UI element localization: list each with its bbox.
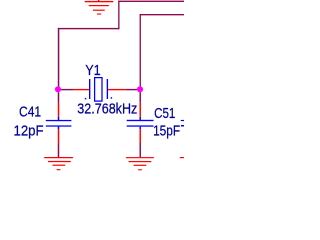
ground bar tip (off-screen symbol at right edge) bbox=[180, 157, 184, 158]
ground bar 1 bbox=[85, 1, 114, 2]
C51 top plate bbox=[127, 120, 154, 121]
Y1 pin number 1 mark bbox=[85, 98, 86, 100]
capacitor C41 bbox=[46, 92, 72, 157]
ground bar 2 bbox=[129, 161, 152, 162]
C41 bottom lead stub bbox=[58, 127, 60, 130]
ground bar 4 bbox=[138, 169, 142, 170]
C41 bottom plate bbox=[46, 125, 72, 126]
capacitor bottom plate tip (off-screen component at right edge) bbox=[181, 125, 184, 127]
wire net A (left junction up, right, up, off right edge) bbox=[58, 1, 184, 87]
svg-text:15pF: 15pF bbox=[153, 124, 180, 140]
svg-text:32.768kHz: 32.768kHz bbox=[77, 102, 137, 118]
C41 top lead stub bbox=[58, 117, 60, 120]
wire net B (from right edge down to right junction) bbox=[140, 14, 184, 87]
svg-text:12pF: 12pF bbox=[14, 123, 44, 139]
ground bar 4 bbox=[97, 14, 101, 15]
wire horizontal segment at y14 bbox=[140, 14, 184, 15]
Y1 left plate bbox=[89, 79, 90, 99]
ground GND (below C41) bbox=[44, 157, 73, 170]
wire vertical segment at x140 bbox=[140, 14, 141, 87]
ground bar 2 bbox=[48, 161, 71, 162]
wire left junction down to C41 pin 1 bbox=[58, 92, 60, 103]
capacitor C51 bbox=[127, 92, 154, 157]
svg-text:Y1: Y1 bbox=[85, 63, 101, 79]
C51 pin 1 lead bbox=[140, 103, 141, 117]
node junction right (net B / Y1 / C51) bbox=[137, 86, 143, 92]
ground bar 1 bbox=[44, 157, 73, 158]
ground bar 2 bbox=[89, 5, 109, 6]
wire C41 pin 2 down to ground bbox=[58, 143, 60, 157]
wire vertical segment at x58 bbox=[58, 28, 60, 87]
node junction left (net A / Y1 / C41) bbox=[55, 86, 61, 92]
ground GND (top, symbol cut by top edge) bbox=[85, 0, 114, 15]
ground bar 3 bbox=[93, 10, 105, 11]
svg-text:C51: C51 bbox=[154, 106, 175, 122]
ground GND (below C51) bbox=[126, 157, 154, 170]
wire horizontal segment at y1 to right edge bbox=[118, 1, 184, 2]
wire Y1 pin 2 to right junction bbox=[126, 89, 137, 90]
C41 pin 2 lead bbox=[58, 129, 60, 143]
Y1 right plate bbox=[107, 79, 108, 99]
Y1 body rectangle bbox=[95, 78, 102, 102]
wire vertical segment at x118 bbox=[118, 1, 119, 30]
svg-text:C41: C41 bbox=[19, 105, 41, 121]
wire left junction to Y1 pin 1 bbox=[61, 89, 74, 90]
ground bar 3 bbox=[53, 165, 66, 166]
C51 pin 2 lead bbox=[140, 129, 141, 143]
C51 top lead stub bbox=[140, 117, 141, 120]
ground bar 1 bbox=[126, 157, 154, 158]
wire horizontal segment at y28 bbox=[58, 28, 120, 29]
ground stub wire bbox=[98, 0, 100, 2]
wire right junction down to C51 pin 1 bbox=[140, 92, 141, 103]
ground bar 4 bbox=[57, 169, 61, 170]
wire C51 pin 2 down to ground bbox=[140, 143, 141, 157]
Y1 pin 2 lead bbox=[108, 89, 126, 90]
ground bar 3 bbox=[134, 165, 147, 166]
capacitor top plate tip (off-screen component at right edge) bbox=[181, 120, 184, 121]
Y1 pin number 2 mark bbox=[111, 97, 112, 99]
Y1 pin 1 lead bbox=[74, 89, 89, 90]
C41 pin 1 lead bbox=[58, 103, 60, 117]
C51 bottom plate bbox=[127, 125, 154, 126]
C51 bottom lead stub bbox=[140, 127, 141, 130]
C41 top plate bbox=[46, 120, 72, 121]
crystal Y1 bbox=[74, 78, 126, 102]
